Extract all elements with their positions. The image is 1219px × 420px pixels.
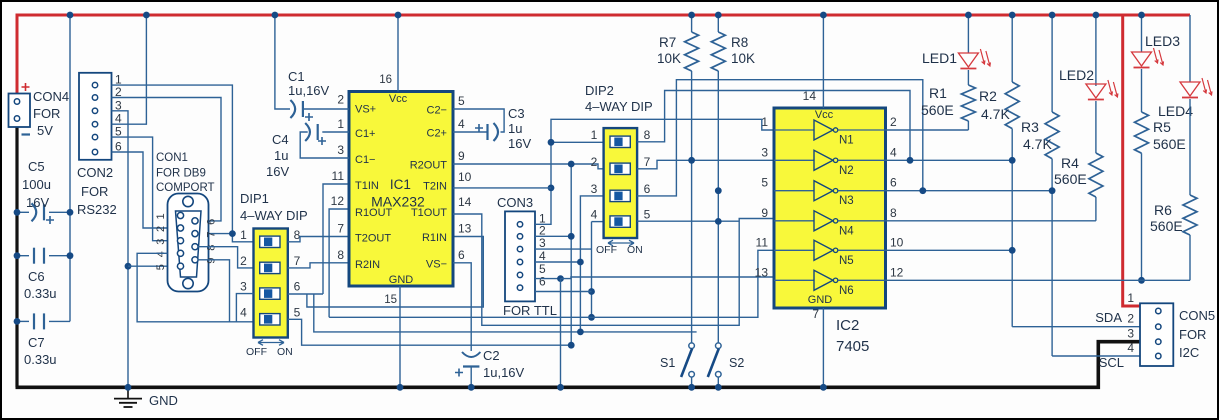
svg-text:LED4: LED4 [1158, 103, 1193, 119]
svg-text:100u: 100u [22, 177, 51, 192]
svg-text:5V: 5V [37, 123, 53, 138]
svg-text:16: 16 [379, 74, 392, 86]
svg-text:11: 11 [756, 235, 769, 249]
svg-text:DIP1: DIP1 [240, 191, 269, 206]
svg-text:16V: 16V [508, 136, 531, 151]
svg-text:T2OUT: T2OUT [355, 233, 391, 245]
svg-text:12: 12 [890, 265, 904, 279]
svg-text:11: 11 [332, 169, 345, 183]
svg-text:C5: C5 [28, 159, 45, 174]
svg-text:9: 9 [458, 149, 465, 163]
svg-text:IC1: IC1 [390, 177, 411, 192]
svg-text:15: 15 [384, 294, 397, 306]
svg-text:10K: 10K [731, 51, 755, 66]
svg-text:4: 4 [458, 117, 465, 131]
svg-text:R4: R4 [1061, 155, 1079, 171]
svg-text:T2IN: T2IN [423, 181, 447, 193]
svg-text:2: 2 [337, 93, 344, 107]
svg-text:5: 5 [294, 305, 301, 319]
svg-text:VS−: VS− [426, 258, 447, 270]
svg-text:1: 1 [337, 117, 344, 131]
svg-text:4.7K: 4.7K [981, 106, 1010, 122]
svg-text:6: 6 [890, 176, 897, 190]
svg-text:560E: 560E [921, 102, 954, 118]
svg-text:N3: N3 [839, 195, 854, 207]
svg-text:GND: GND [808, 294, 833, 306]
svg-text:N5: N5 [839, 255, 854, 267]
svg-text:1u: 1u [274, 148, 288, 163]
svg-text:RS232: RS232 [77, 202, 117, 217]
svg-text:CON1: CON1 [156, 152, 188, 164]
svg-text:N1: N1 [839, 135, 854, 147]
svg-text:FOR DB9: FOR DB9 [156, 168, 206, 180]
svg-text:C2: C2 [483, 348, 500, 363]
svg-text:VS+: VS+ [355, 104, 376, 116]
svg-text:N6: N6 [839, 285, 854, 297]
svg-text:1: 1 [1127, 291, 1134, 305]
svg-text:C4: C4 [272, 132, 289, 147]
svg-text:N4: N4 [839, 225, 854, 237]
svg-text:C1+: C1+ [355, 128, 376, 140]
svg-text:4.7K: 4.7K [1023, 136, 1052, 152]
svg-text:C2−: C2− [427, 105, 448, 117]
svg-text:16V: 16V [266, 164, 289, 179]
svg-text:14: 14 [458, 195, 472, 209]
svg-text:ON: ON [277, 346, 293, 358]
svg-text:9: 9 [761, 206, 768, 220]
svg-text:7: 7 [294, 254, 301, 268]
svg-text:13: 13 [458, 222, 472, 236]
svg-text:4: 4 [1127, 341, 1134, 355]
svg-text:4–WAY DIP: 4–WAY DIP [585, 99, 653, 114]
svg-text:3: 3 [155, 239, 167, 245]
svg-text:GND: GND [149, 393, 178, 408]
svg-text:C6: C6 [28, 269, 45, 284]
svg-text:C1: C1 [288, 69, 305, 84]
svg-text:0.33u: 0.33u [24, 286, 57, 301]
svg-text:R2OUT: R2OUT [410, 160, 448, 172]
svg-text:S1: S1 [660, 356, 675, 370]
svg-text:I2C: I2C [1179, 345, 1199, 360]
svg-text:13: 13 [755, 265, 769, 279]
svg-text:R6: R6 [1154, 202, 1172, 218]
svg-text:R7: R7 [659, 35, 676, 50]
svg-text:8: 8 [890, 206, 897, 220]
svg-text:ON: ON [627, 244, 643, 256]
svg-text:C3: C3 [508, 106, 525, 121]
svg-text:LED3: LED3 [1145, 33, 1180, 49]
svg-text:1: 1 [155, 213, 167, 219]
svg-text:CON5: CON5 [1179, 308, 1215, 323]
svg-text:C1−: C1− [355, 154, 376, 166]
svg-text:2: 2 [1127, 312, 1134, 326]
svg-text:5: 5 [155, 264, 167, 270]
svg-text:12: 12 [331, 194, 345, 208]
svg-text:6: 6 [206, 219, 218, 225]
svg-text:8: 8 [206, 245, 218, 251]
svg-text:2: 2 [591, 155, 598, 169]
svg-text:C2+: C2+ [427, 128, 448, 140]
svg-text:3: 3 [1127, 327, 1134, 341]
svg-text:560E: 560E [1153, 136, 1186, 152]
svg-text:CON2: CON2 [77, 165, 113, 180]
svg-text:OFF: OFF [596, 244, 617, 256]
svg-text:14: 14 [803, 89, 817, 103]
svg-text:1: 1 [761, 115, 768, 129]
svg-text:CON3: CON3 [497, 195, 533, 210]
svg-text:7: 7 [812, 307, 819, 321]
svg-text:5: 5 [458, 94, 465, 108]
svg-text:FOR TTL: FOR TTL [503, 303, 557, 318]
svg-text:OFF: OFF [246, 346, 267, 358]
svg-text:7405: 7405 [836, 338, 869, 355]
svg-text:FOR: FOR [33, 106, 60, 121]
svg-text:6: 6 [539, 275, 546, 289]
svg-text:8: 8 [337, 248, 344, 262]
svg-text:Vcc: Vcc [389, 93, 408, 105]
svg-text:S2: S2 [729, 356, 744, 370]
svg-text:IC2: IC2 [836, 317, 859, 334]
svg-text:R5: R5 [1153, 119, 1171, 135]
svg-text:FOR: FOR [1179, 327, 1206, 342]
svg-text:10: 10 [458, 170, 472, 184]
svg-text:R8: R8 [731, 35, 748, 50]
svg-text:T1IN: T1IN [355, 180, 379, 192]
svg-text:R2IN: R2IN [355, 259, 380, 271]
svg-text:1: 1 [591, 128, 598, 142]
svg-text:560E: 560E [1054, 171, 1087, 187]
svg-text:SCL: SCL [1099, 355, 1124, 370]
svg-text:GND: GND [389, 274, 414, 286]
svg-text:LED2: LED2 [1059, 67, 1094, 83]
svg-text:4: 4 [240, 305, 247, 319]
svg-text:1u: 1u [508, 121, 522, 136]
svg-text:3: 3 [337, 143, 344, 157]
svg-text:COMPORT: COMPORT [156, 182, 215, 194]
svg-text:C7: C7 [28, 335, 45, 350]
svg-text:LED1: LED1 [922, 50, 957, 66]
svg-text:560E: 560E [1150, 218, 1183, 234]
svg-text:R2: R2 [979, 88, 997, 104]
svg-text:DIP2: DIP2 [585, 83, 614, 98]
svg-text:Vcc: Vcc [815, 109, 834, 121]
svg-text:4: 4 [591, 208, 598, 222]
svg-text:MAX232: MAX232 [371, 194, 425, 210]
svg-text:CON4: CON4 [33, 89, 69, 104]
svg-text:1: 1 [240, 228, 247, 242]
svg-text:8: 8 [644, 128, 651, 142]
svg-text:4–WAY DIP: 4–WAY DIP [240, 208, 308, 223]
svg-text:3: 3 [761, 145, 768, 159]
svg-text:FOR: FOR [81, 184, 108, 199]
svg-text:4: 4 [539, 249, 546, 263]
svg-text:7: 7 [644, 155, 651, 169]
svg-text:N2: N2 [839, 165, 854, 177]
svg-text:6: 6 [644, 182, 651, 196]
svg-text:2: 2 [155, 226, 167, 232]
svg-text:R1IN: R1IN [422, 232, 447, 244]
svg-text:4: 4 [890, 145, 897, 159]
svg-text:2: 2 [890, 115, 897, 129]
svg-text:10K: 10K [657, 51, 681, 66]
svg-text:2: 2 [240, 254, 247, 268]
svg-text:0.33u: 0.33u [24, 352, 57, 367]
svg-text:R1: R1 [929, 85, 947, 101]
svg-text:3: 3 [539, 236, 546, 250]
svg-text:1u,16V: 1u,16V [483, 365, 525, 380]
svg-text:3: 3 [240, 280, 247, 294]
svg-text:7: 7 [206, 231, 218, 237]
svg-text:16V: 16V [26, 195, 49, 210]
svg-text:R3: R3 [1021, 119, 1039, 135]
svg-text:4: 4 [155, 251, 167, 257]
svg-text:SDA: SDA [1095, 310, 1122, 325]
svg-text:6: 6 [458, 248, 465, 262]
svg-text:6: 6 [294, 280, 301, 294]
svg-text:9: 9 [206, 258, 218, 264]
svg-text:5: 5 [761, 176, 768, 190]
svg-text:5: 5 [644, 208, 651, 222]
svg-text:3: 3 [591, 182, 598, 196]
svg-text:10: 10 [890, 235, 904, 249]
svg-text:7: 7 [337, 222, 344, 236]
svg-text:1u,16V: 1u,16V [288, 83, 330, 98]
